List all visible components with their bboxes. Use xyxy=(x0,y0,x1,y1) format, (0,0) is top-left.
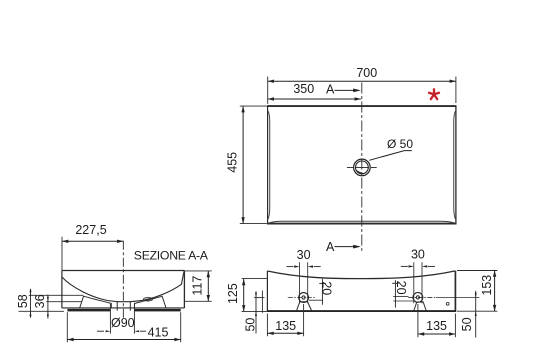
svg-text:50: 50 xyxy=(243,318,257,332)
dimension 20 left xyxy=(321,279,323,305)
dimension 20 right xyxy=(394,280,396,307)
front left edge xyxy=(266,271,268,311)
front top wave curve xyxy=(267,271,455,279)
arrow A top xyxy=(335,89,355,91)
boss reference line 36 xyxy=(46,301,82,303)
boss reference line 58 xyxy=(29,294,84,296)
section right wall xyxy=(183,270,185,308)
svg-text:350: 350 xyxy=(293,82,314,96)
front right boss xyxy=(414,302,427,311)
section shell bottom line xyxy=(62,307,184,309)
dimension 50 right line xyxy=(475,291,477,338)
svg-text:415: 415 xyxy=(148,326,169,340)
svg-text:455: 455 xyxy=(226,152,240,173)
front left hole centerline xyxy=(288,297,316,299)
dimension 415 line xyxy=(67,339,180,341)
dimension O90 arrows xyxy=(97,330,104,332)
svg-text:117: 117 xyxy=(191,276,205,296)
dimension 700 extension lines xyxy=(268,77,456,104)
svg-text:20: 20 xyxy=(394,281,408,295)
svg-text:50: 50 xyxy=(460,317,474,331)
dimension 153 line xyxy=(494,271,496,312)
svg-text:Ø90: Ø90 xyxy=(111,316,135,330)
dimension 30 right arrows xyxy=(401,265,408,267)
red asterisk xyxy=(429,89,439,99)
svg-text:A: A xyxy=(326,83,335,97)
front right hole centerline xyxy=(408,296,436,298)
dimension 153 extension lines xyxy=(457,270,497,272)
svg-text:36: 36 xyxy=(33,294,47,308)
dimension 700 line xyxy=(268,80,456,82)
plan view outer rectangle xyxy=(267,106,457,224)
dimension 135 left extension verticals xyxy=(267,304,303,336)
dimension O90 extension verticals xyxy=(110,304,134,334)
extra vertical near front left xyxy=(261,291,263,313)
dimension 455 extension lines xyxy=(240,106,267,224)
section base plate left part xyxy=(67,309,110,312)
plan vertical centerline (section cut A-A) xyxy=(361,83,363,253)
dimension 50 left line xyxy=(255,291,257,333)
section top rim edge xyxy=(62,270,184,272)
svg-text:125: 125 xyxy=(226,283,240,304)
dimension 117 extension lines xyxy=(185,271,212,301)
dimension 50 left extension tick xyxy=(254,297,264,299)
dimension 135 left line xyxy=(267,332,303,334)
dimension 455 line xyxy=(242,106,244,224)
dimension 135 right extension verticals xyxy=(418,304,456,337)
dimension 227,5 extension line xyxy=(61,237,63,270)
section right boss hole ellipse xyxy=(143,298,152,301)
dimension 350 line xyxy=(268,98,361,100)
dimension 117 line xyxy=(207,271,209,301)
svg-text:153: 153 xyxy=(480,275,494,296)
plan inner bottom wall curve xyxy=(268,221,455,223)
front left boss xyxy=(296,302,311,311)
svg-text:20: 20 xyxy=(319,281,333,295)
front bottom edge xyxy=(267,310,456,312)
front left fixing hole xyxy=(299,293,309,303)
front right fixing hole xyxy=(413,293,423,303)
front right edge xyxy=(454,271,456,311)
drain recess verticals xyxy=(117,302,130,311)
dimension 135 right line xyxy=(418,333,456,335)
arrow A bottom xyxy=(335,246,355,248)
section right boss xyxy=(135,296,166,308)
section left boss xyxy=(80,296,112,308)
drain horizontal centerline ticks xyxy=(347,166,377,168)
plan inner right wall curve xyxy=(454,111,456,219)
section base plate right part xyxy=(134,309,180,312)
section inner bowl curve xyxy=(62,271,184,302)
plan inner left wall curve xyxy=(268,111,270,219)
dimension 58 line xyxy=(30,289,32,318)
svg-text:Ø 50: Ø 50 xyxy=(387,137,413,151)
drain inner circle xyxy=(356,161,369,174)
dimension 30 right extension verticals xyxy=(414,262,422,303)
svg-text:135: 135 xyxy=(275,319,296,333)
svg-text:135: 135 xyxy=(426,319,447,333)
svg-text:30: 30 xyxy=(297,248,311,262)
small overflow hole right xyxy=(446,302,449,305)
svg-text:SEZIONE A-A: SEZIONE A-A xyxy=(134,248,209,262)
dimension 415 extension verticals xyxy=(67,312,180,342)
svg-text:58: 58 xyxy=(16,294,30,308)
dimension 227,5 line xyxy=(62,240,123,242)
svg-text:A: A xyxy=(326,240,335,254)
bottom reference extension line xyxy=(19,310,65,312)
section centerline xyxy=(122,241,124,319)
dimension 30 left arrows xyxy=(287,266,294,268)
drain outer circle xyxy=(354,159,371,176)
svg-text:700: 700 xyxy=(356,66,377,80)
dimension 125 line xyxy=(243,279,245,312)
dimension 30 left extension verticals xyxy=(300,262,308,303)
drain leader line xyxy=(369,151,412,161)
drain chord mark xyxy=(356,170,364,174)
svg-text:30: 30 xyxy=(411,248,425,262)
dimension 125 extension lines xyxy=(242,277,267,279)
dimension 36 line xyxy=(47,295,49,319)
section left wall xyxy=(61,271,63,309)
svg-text:227,5: 227,5 xyxy=(75,223,106,237)
